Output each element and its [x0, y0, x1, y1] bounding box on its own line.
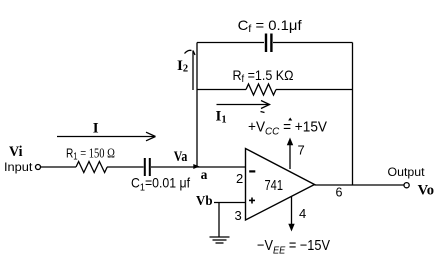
svg-text:+VCC = +15V: +VCC = +15V: [248, 120, 327, 138]
wire input to R1: [41, 166, 76, 168]
capacitor C1: [145, 158, 150, 176]
node Input label: [4, 160, 33, 174]
wire output: [315, 184, 405, 186]
svg-text:4: 4: [299, 206, 306, 221]
wire left feedback vertical: [196, 43, 198, 168]
op-amp plus input sign: [249, 198, 255, 204]
capacitor Cf: [266, 34, 271, 53]
resistor R1 value label: [66, 145, 115, 162]
svg-text:3: 3: [235, 208, 242, 223]
svg-text:Output: Output: [388, 165, 426, 179]
svg-text:Va: Va: [174, 149, 188, 165]
node a label: [201, 167, 208, 182]
wire Vb to pin 3: [214, 202, 246, 204]
node Output label: [388, 165, 426, 179]
svg-text:Vb: Vb: [196, 194, 213, 209]
svg-text:−VEE = −15V: −VEE = −15V: [257, 238, 330, 257]
svg-text:Vo: Vo: [418, 183, 435, 199]
svg-text:6: 6: [336, 186, 343, 200]
op-amp 741 label: [265, 178, 284, 194]
current arrow I: [57, 132, 156, 141]
wire Rf left: [197, 89, 246, 91]
resistor Rf value label: [233, 67, 294, 85]
ground: [210, 237, 230, 243]
current I2 label: [177, 58, 188, 75]
pin 7 label: [298, 143, 305, 158]
pin 7 supply arrow: [287, 138, 293, 170]
VCC label: [248, 120, 327, 138]
svg-text:741: 741: [265, 178, 284, 194]
node Vi label: [9, 144, 23, 160]
node Vb label: [196, 194, 213, 209]
VEE label: [257, 238, 330, 257]
current arrow I2: [185, 50, 196, 90]
pin 2 label: [236, 171, 243, 186]
svg-text:I: I: [93, 120, 99, 136]
node Va label: [174, 149, 188, 165]
wire right feedback vertical: [352, 43, 354, 186]
pin 4 supply arrow: [288, 197, 294, 232]
svg-text:Vi: Vi: [9, 144, 23, 160]
wire top feedback right of Cf: [273, 42, 353, 44]
svg-text:7: 7: [298, 143, 305, 158]
capacitor Cf value label: [238, 17, 302, 35]
resistor Rf: [246, 84, 276, 95]
pin 6 label: [336, 186, 343, 200]
output terminal: [404, 183, 409, 188]
wire R1 to C1: [107, 166, 144, 168]
input terminal: [36, 165, 41, 170]
VCC dotted arrow tip: [288, 118, 292, 121]
current I1 label: [216, 109, 227, 126]
svg-text:Input: Input: [4, 160, 33, 174]
node a junction arrow: [193, 164, 199, 169]
wire top feedback left of Cf: [197, 42, 264, 44]
svg-text:C1=0.01 μf: C1=0.01 μf: [131, 175, 190, 194]
capacitor C1 value label: [131, 175, 190, 194]
op-amp U1 741: [246, 149, 315, 221]
node Vo label: [418, 183, 435, 199]
resistor R1: [76, 162, 107, 173]
svg-text:a: a: [201, 167, 208, 182]
svg-text:Cf = 0.1μf: Cf = 0.1μf: [238, 17, 302, 35]
current arrow I1: [217, 101, 270, 113]
wire Vb to ground: [218, 203, 220, 238]
current I label: [93, 120, 99, 136]
pin 3 label: [235, 208, 242, 223]
wire Rf right: [276, 89, 353, 91]
svg-text:2: 2: [236, 171, 243, 186]
pin 4 label: [299, 206, 306, 221]
op-amp minus input sign: [249, 170, 255, 172]
wire C1 to op-amp pin2 through node a: [151, 166, 246, 168]
